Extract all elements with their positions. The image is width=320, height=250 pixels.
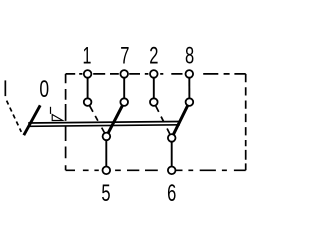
terminal 5 connector wire — [105, 136, 107, 170]
actuator bar (movable bridge) — [28, 122, 180, 127]
svg-text:6: 6 — [167, 181, 176, 206]
terminal 7 connector wire — [123, 74, 125, 102]
mechanical link line top right (dash-dot) — [203, 73, 246, 75]
position label I — [5, 80, 7, 96]
lever position I (dashed) — [7, 101, 22, 132]
mechanical link line right edge (dashed) — [245, 74, 247, 170]
contact blade 8-6 (closed) — [172, 102, 190, 138]
terminal 6 pin circle — [168, 167, 176, 175]
terminal 8 inner contact circle — [186, 98, 194, 106]
terminal 5 pin circle — [103, 167, 111, 175]
svg-text:0: 0 — [39, 76, 49, 102]
terminal 8 pin circle — [186, 70, 194, 78]
terminal 7 inner contact circle — [120, 98, 128, 106]
housing outline left edge (dashed) — [65, 74, 67, 170]
detent tick — [50, 107, 52, 114]
terminal 1 connector wire — [87, 74, 89, 102]
detent triangle on bar — [52, 115, 62, 121]
svg-text:1: 1 — [82, 44, 91, 70]
mechanical link line bottom right (dash-dot) — [176, 169, 246, 171]
housing outline top edge (dashed) — [66, 73, 183, 75]
open contact dash from terminal 2 — [156, 106, 170, 134]
svg-text:8: 8 — [185, 44, 194, 69]
housing outline bottom edge (dashed) — [66, 169, 158, 171]
terminal 2 inner contact circle — [150, 98, 158, 106]
terminal 6 inner contact circle — [168, 134, 176, 142]
svg-text:7: 7 — [120, 44, 129, 69]
terminal 2 pin circle — [150, 70, 158, 78]
open contact dash from terminal 1 — [90, 106, 105, 133]
terminal 2 connector wire — [153, 74, 155, 102]
svg-text:5: 5 — [101, 181, 110, 206]
contact blade 7-5 (closed) — [106, 102, 124, 136]
lever position 0 (solid) — [24, 105, 40, 135]
terminal 6 connector wire — [171, 138, 173, 170]
terminal 5 inner contact circle — [103, 133, 111, 141]
terminal 1 inner contact circle — [84, 98, 92, 106]
terminal 7 pin circle — [120, 70, 128, 78]
svg-text:2: 2 — [149, 44, 158, 69]
terminal 8 connector wire — [188, 74, 190, 102]
terminal 1 pin circle — [84, 70, 92, 78]
